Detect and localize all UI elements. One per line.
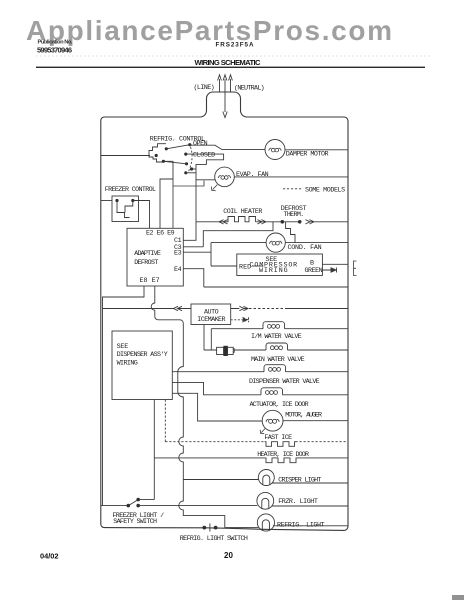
refrig control pole terminal C (162, 160, 165, 163)
fast ice heater R2 (265, 442, 296, 447)
icemaker output chevrons (231, 306, 248, 310)
svg-text:WIRING: WIRING (259, 267, 288, 275)
freezer light switch upper contact (136, 498, 140, 502)
damper motor M1 (265, 140, 285, 160)
adaptive defrost control box (127, 228, 183, 286)
heater ice door R3 (265, 458, 298, 463)
svg-text:FREEZER CONTROL: FREEZER CONTROL (105, 186, 156, 194)
freezer control internal switch zigzag (117, 201, 133, 218)
auto icemaker box (191, 304, 231, 325)
pin E4 wire (183, 269, 204, 287)
crisper light lamp LP1 (258, 470, 274, 486)
svg-text:COIL HEATER: COIL HEATER (223, 208, 262, 216)
coil heater feed wire with chevrons (196, 220, 228, 224)
svg-text:E2 E6 E9: E2 E6 E9 (146, 230, 175, 238)
svg-text:HEATER, ICE DOOR: HEATER, ICE DOOR (257, 451, 309, 459)
freezer control box (112, 196, 139, 222)
wire freezer control to E2 rail (133, 201, 150, 229)
svg-text:CLOSED: CLOSED (193, 151, 215, 159)
wire damper motor to right border (285, 149, 348, 151)
vertical junction rail x211 (210, 243, 212, 266)
switch blade A to open (166, 145, 190, 149)
refrig control pole terminal A (165, 147, 168, 150)
svg-text:E3: E3 (174, 249, 182, 257)
svg-text:REFRIG. LIGHT: REFRIG. LIGHT (277, 521, 325, 529)
dispenser water valve solenoid L3 (264, 365, 286, 372)
chevrons right of coil heater (256, 220, 282, 224)
red lead dash inside box (253, 265, 264, 267)
svg-text:FAST ICE: FAST ICE (264, 434, 292, 442)
svg-text:I/M WATER VALVE: I/M WATER VALVE (251, 333, 302, 341)
refrig control contact dot E (185, 162, 188, 165)
svg-text:REFRIG. LIGHT SWITCH: REFRIG. LIGHT SWITCH (180, 535, 248, 543)
refrig control open contact dot (188, 143, 191, 146)
pin C3 wire (183, 246, 203, 248)
wire closed contact step down (186, 154, 224, 222)
refrig switch dot right (214, 526, 218, 530)
wire auger to right border (283, 420, 348, 422)
cond fan feed wire (211, 242, 266, 244)
heater return wire y231.5 (203, 222, 273, 247)
svg-text:SOME MODELS: SOME MODELS (305, 186, 345, 194)
svg-text:MOTOR, AUGER: MOTOR, AUGER (285, 411, 322, 419)
main valve row fuse body (204, 349, 266, 351)
main rail lower segment with hop (179, 479, 225, 528)
compressor red lead wire (211, 265, 237, 267)
freezer light switch terminal left (127, 504, 131, 508)
svg-text:E8 E7: E8 E7 (140, 277, 160, 285)
inline fuse body left cap (217, 347, 224, 354)
auger motor M4 (262, 410, 283, 431)
cond fan motor M3 (266, 233, 285, 252)
svg-text:(LINE): (LINE) (194, 84, 215, 92)
switch travel arc dashed (189, 147, 193, 172)
wire into refrig lamp (247, 527, 258, 529)
svg-text:AppliancePartsPros.com: AppliancePartsPros.com (26, 15, 392, 46)
inline fuse dark center band (223, 346, 227, 356)
rail from dispenser box dashed (164, 400, 166, 442)
freezer light switch lower contact (136, 504, 140, 508)
i/m solenoid loops (267, 325, 279, 329)
freezer control feed wire (101, 200, 112, 202)
wire dispenser valve to border (286, 371, 348, 373)
auger motor winding symbol (266, 419, 279, 423)
svg-text:WIRING SCHEMATIC: WIRING SCHEMATIC (195, 58, 262, 67)
svg-text:SEE: SEE (117, 343, 129, 351)
svg-text:MAIN WATER VALVE: MAIN WATER VALVE (251, 356, 305, 364)
dispenser valve feed wire (172, 371, 264, 373)
wire refrig light to border (273, 525, 348, 527)
faint dotted line above rule (36, 55, 430, 57)
heater ice door feed wire (154, 457, 264, 459)
svg-text:SAFETY SWITCH: SAFETY SWITCH (113, 518, 157, 526)
wire between defrost dots (282, 221, 299, 223)
refrig control plug bracket (149, 144, 166, 162)
outer cabinet border with power pedestal (101, 92, 348, 530)
wire cond fan to right border (285, 242, 348, 244)
svg-text:20: 20 (224, 551, 233, 560)
icemaker test arrow (231, 317, 249, 322)
wire fast ice to border dashed (296, 441, 348, 443)
long wire row y287 to right border (204, 286, 348, 288)
rail E7 wire hop and elbow to main rail (151, 286, 183, 323)
pin C1 wire with diagonal (183, 222, 196, 241)
rail E9 (173, 179, 204, 228)
svg-text:E4: E4 (174, 266, 182, 274)
svg-text:ACTUATOR, ICE DOOR: ACTUATOR, ICE DOOR (250, 401, 309, 409)
inline fuse body right cap (228, 347, 234, 354)
svg-text:DEFROST: DEFROST (134, 259, 158, 267)
connector bracket outside right border (354, 261, 357, 276)
evap fan chassis arrow (211, 185, 217, 191)
wire open contact to damper motor (190, 145, 266, 149)
prong middle arrow up (223, 75, 227, 92)
inline fuse nub (233, 349, 234, 353)
wire contact F jog (192, 168, 196, 170)
defrost thermostat terminal dot right (298, 220, 302, 224)
defrost thermostat terminal dot left (281, 220, 285, 224)
refrig control contact dot F (190, 167, 193, 170)
freezer control terminal left (115, 199, 118, 202)
freezer light wire to frzr lamp (138, 505, 257, 507)
some models dashed sample (283, 188, 302, 190)
wire contact G to coil heater rail (186, 172, 196, 174)
svg-text:ICEMAKER: ICEMAKER (197, 316, 225, 324)
defrost bypass staircase wire (286, 222, 295, 243)
wire actuator to border (283, 394, 348, 396)
refrig lamp filament (262, 520, 269, 531)
freezer light switch blade (128, 500, 138, 506)
evap fan motor M2 (215, 167, 235, 187)
see compressor wiring box (237, 254, 323, 276)
evap fan winding symbol (218, 176, 230, 180)
wire crisper light to border (272, 482, 348, 484)
refrig light switch wire and dots (225, 527, 247, 529)
wire upper contact to dispenser rail (138, 499, 154, 501)
refrig control pole terminal B (155, 154, 158, 157)
svg-text:THERM.: THERM. (284, 211, 304, 219)
prong (line) arrow (218, 75, 222, 92)
frzr light lamp LP2 (257, 492, 274, 509)
crisper light feed wire (183, 479, 258, 481)
wire i/m valve to border (285, 328, 348, 330)
defrost coil heater R1 (226, 217, 256, 222)
svg-text:CRISPER LIGHT: CRISPER LIGHT (278, 476, 321, 484)
auger chassis arrow (260, 429, 265, 434)
cond fan winding symbol (270, 241, 282, 245)
svg-text:DISPENSER ASS'Y: DISPENSER ASS'Y (117, 351, 168, 359)
main solenoid loops (270, 346, 282, 350)
actuator solenoid loops (265, 391, 277, 395)
freezer control terminal right (131, 199, 134, 202)
svg-text:04/02: 04/02 (40, 552, 59, 561)
i/m water valve solenoid L1 (263, 322, 285, 329)
svg-text:FRS23F5A: FRS23F5A (216, 42, 254, 49)
svg-text:ADAPTIVE: ADAPTIVE (134, 250, 161, 258)
green lead arrow (322, 268, 336, 273)
rail E8 wire down left side (103, 286, 145, 506)
refrig switch dot left (202, 526, 206, 530)
auger feed wire (172, 393, 262, 421)
dispenser solenoid loops (268, 368, 280, 372)
svg-text:5995370946: 5995370946 (37, 46, 72, 55)
svg-text:GREEN: GREEN (305, 267, 323, 275)
fast ice feed dashed wire (165, 441, 264, 443)
wire heater ice door to border (297, 457, 348, 459)
i/m water valve wire (211, 328, 263, 330)
svg-text:DISPENSER WATER VALVE: DISPENSER WATER VALVE (249, 378, 320, 386)
refrig control contact dot G (184, 171, 187, 174)
see dispenser assy wiring box (112, 331, 172, 400)
frzr lamp filament (262, 498, 269, 508)
actuator feed wire jog (172, 382, 261, 394)
compressor output wire to border (322, 263, 347, 265)
i/m valve corner rail (210, 329, 212, 350)
bottom-right corner smudge (452, 595, 464, 600)
svg-text:COND. FAN: COND. FAN (288, 244, 322, 252)
prong (neutral) arrow (229, 75, 233, 92)
svg-text:WIRING: WIRING (117, 359, 138, 367)
actuator ice door solenoid L4 (261, 388, 283, 395)
wire main valve to border (288, 349, 348, 351)
damper motor winding symbol (269, 148, 281, 152)
wire evap fan to right border (234, 176, 347, 178)
main water valve solenoid L2 (266, 343, 288, 350)
icemaker feed wire with chevrons (103, 306, 192, 310)
freezer light switch feed from border (101, 505, 129, 507)
switch blade C to E (163, 161, 186, 164)
svg-text:EVAP. FAN: EVAP. FAN (236, 171, 269, 179)
ground arrow down into cabinet (223, 92, 227, 118)
refrig control closed contact dot (184, 153, 187, 156)
icemaker bottom rail (203, 325, 205, 351)
icemaker output dashed wire to border (245, 308, 286, 310)
icemaker output wire solid to border (285, 308, 348, 310)
pin E3 wire (183, 251, 211, 253)
svg-text:DAMPER MOTOR: DAMPER MOTOR (286, 151, 329, 159)
svg-text:OPEN: OPEN (193, 140, 208, 148)
svg-text:(NEUTRAL): (NEUTRAL) (234, 85, 264, 93)
refrig switch plunger bar (209, 523, 211, 531)
wire frzr light to border (272, 505, 348, 507)
main rail from defrost box corner (178, 323, 184, 479)
header rule (36, 67, 425, 68)
rail from dispenser box solid (153, 400, 155, 500)
wire from left border to refrig control plug (101, 155, 150, 157)
chevrons right of defrost thermostat (305, 220, 347, 224)
crisper lamp filament (263, 475, 270, 485)
refrig light lamp LP3 (257, 514, 274, 531)
rail E6 from switch (160, 161, 173, 228)
svg-text:FRZR. LIGHT: FRZR. LIGHT (278, 498, 318, 506)
